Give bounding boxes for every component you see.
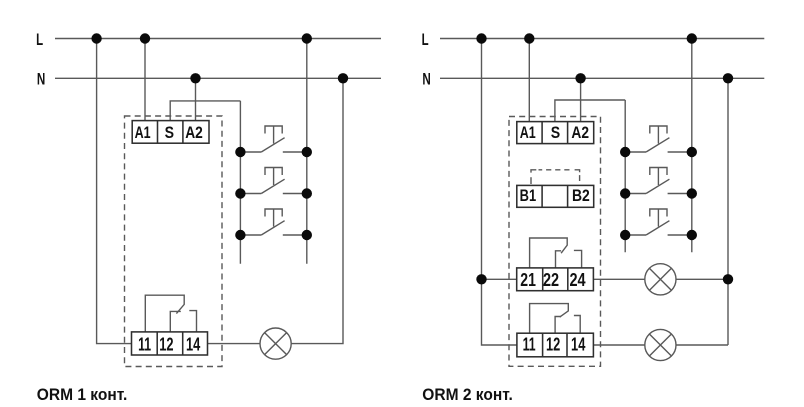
- svg-text:L: L: [36, 31, 43, 49]
- svg-text:N: N: [37, 70, 45, 88]
- svg-text:14: 14: [571, 334, 586, 355]
- svg-text:11: 11: [523, 334, 536, 355]
- svg-text:ORM 2 конт.: ORM 2 конт.: [422, 385, 513, 404]
- svg-text:12: 12: [159, 334, 173, 355]
- svg-text:ORM 1 конт.: ORM 1 конт.: [37, 385, 128, 404]
- svg-text:S: S: [551, 124, 560, 142]
- svg-text:14: 14: [186, 334, 201, 355]
- svg-text:24: 24: [569, 269, 586, 290]
- svg-text:11: 11: [138, 334, 151, 355]
- svg-text:22: 22: [543, 269, 559, 290]
- svg-text:B1: B1: [520, 187, 537, 205]
- svg-text:S: S: [165, 124, 174, 142]
- svg-text:A2: A2: [185, 124, 203, 142]
- svg-text:N: N: [422, 70, 430, 88]
- svg-text:B2: B2: [572, 187, 590, 205]
- svg-text:A1: A1: [135, 124, 151, 142]
- svg-text:12: 12: [546, 334, 560, 355]
- svg-text:A2: A2: [571, 124, 589, 142]
- svg-text:A1: A1: [520, 124, 536, 142]
- svg-text:L: L: [422, 31, 429, 49]
- svg-text:21: 21: [520, 269, 536, 290]
